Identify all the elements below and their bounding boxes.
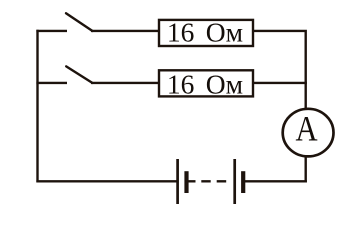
wire: bottom left segment (from left bus to battery) (36, 180, 176, 182)
wire: branch1 switch to resistor R1 (91, 30, 159, 32)
battery GB1 short plate right (-) (241, 171, 245, 193)
wire: ammeter to bottom wire (305, 157, 307, 183)
svg-text:16 Ом: 16 Ом (167, 68, 243, 99)
wire: branch2 switch to resistor R2 (91, 82, 159, 84)
wire: branch2 left segment (36, 82, 67, 84)
svg-text:16 Ом: 16 Ом (167, 17, 243, 48)
switch S1 blade (open) (66, 13, 92, 31)
wire: resistor R2 to right bus (253, 82, 307, 84)
ammeter A1 letter "A" (295, 109, 317, 149)
wire: branch1 left segment (36, 30, 67, 32)
battery GB1 long plate left (+) (176, 159, 179, 204)
resistor R2 box (159, 70, 253, 96)
wire: left vertical bus (36, 30, 38, 183)
battery GB1 dashed link (additional cells) (188, 180, 226, 182)
ammeter A1 circle (283, 109, 334, 157)
battery GB1 short plate left (-) (184, 171, 188, 193)
wire: resistor R1 to right bus, and right bus down to ammeter (253, 31, 306, 109)
svg-text:А: А (295, 109, 317, 149)
battery GB1 long plate right (+) (233, 159, 236, 204)
switch S2 blade (open) (66, 66, 92, 83)
resistor R1 box (159, 20, 253, 46)
wire: bottom right segment (battery to ammeter branch) (245, 180, 307, 182)
